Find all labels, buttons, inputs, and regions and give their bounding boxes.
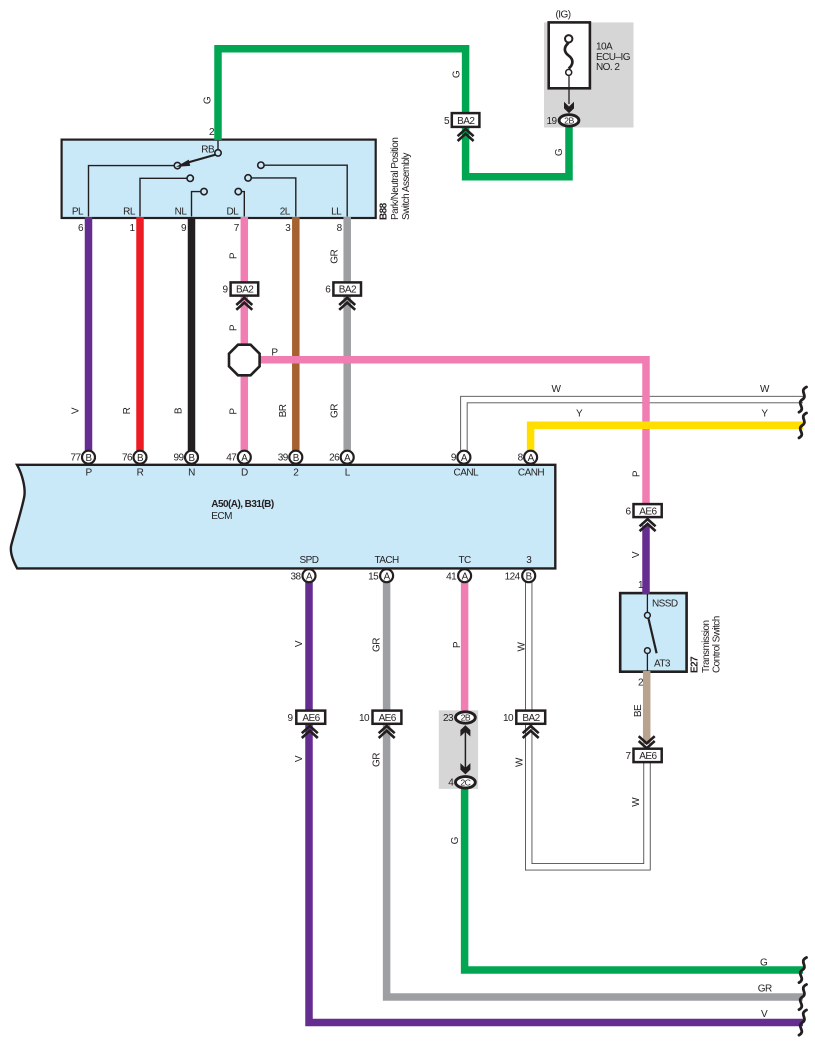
svg-text:DL: DL bbox=[226, 207, 239, 218]
RL contact wire bbox=[140, 178, 187, 216]
fuse block panel (IG) gray background bbox=[544, 22, 634, 127]
svg-text:BR: BR bbox=[278, 404, 289, 417]
svg-text:GR: GR bbox=[758, 984, 772, 995]
connector 10 BA2 bbox=[516, 711, 545, 724]
chevron arrows under 6 BA2 bbox=[339, 298, 355, 310]
svg-text:77: 77 bbox=[70, 453, 81, 464]
svg-text:V: V bbox=[294, 755, 305, 762]
connector oval 19 2B bbox=[559, 115, 579, 126]
wire V violet 6 AE6 to E27 pin1 bbox=[642, 526, 650, 595]
chevron arrows under 5 BA2 bbox=[458, 129, 474, 141]
svg-text:P: P bbox=[85, 468, 92, 479]
switch arm bbox=[187, 155, 216, 163]
svg-text:10: 10 bbox=[359, 713, 370, 724]
fuse element symbol bbox=[565, 35, 573, 75]
wire BE beige E27 pin2 to 7 AE6 bbox=[643, 671, 651, 744]
svg-text:P: P bbox=[271, 348, 278, 359]
svg-text:RL: RL bbox=[123, 207, 136, 218]
svg-text:9: 9 bbox=[287, 713, 293, 724]
svg-text:7: 7 bbox=[625, 751, 631, 762]
svg-text:A50(A), B31(B): A50(A), B31(B) bbox=[211, 499, 274, 510]
svg-text:7: 7 bbox=[234, 223, 240, 234]
svg-text:6: 6 bbox=[625, 506, 631, 517]
svg-text:Y: Y bbox=[576, 408, 583, 419]
svg-text:2B: 2B bbox=[461, 713, 471, 723]
svg-text:Switch Assembly: Switch Assembly bbox=[401, 153, 412, 220]
wire BR brown 2L pin3 to ECM pin39 bbox=[292, 217, 300, 451]
fuse output lead wire bbox=[568, 76, 570, 104]
svg-text:B: B bbox=[173, 407, 184, 414]
contact circles bbox=[174, 162, 180, 168]
svg-text:2C: 2C bbox=[460, 777, 470, 787]
connector 9 BA2 bbox=[231, 282, 259, 295]
fuse output arrowhead bbox=[564, 102, 574, 114]
svg-text:B: B bbox=[526, 571, 533, 582]
svg-text:3: 3 bbox=[285, 223, 291, 234]
break symbol squiggle V right bbox=[799, 1010, 807, 1035]
E27 internal switch bbox=[645, 594, 657, 671]
svg-text:8: 8 bbox=[518, 453, 524, 464]
svg-text:15: 15 bbox=[368, 571, 379, 582]
svg-text:2B: 2B bbox=[564, 116, 574, 126]
svg-text:P: P bbox=[229, 408, 240, 415]
svg-text:V: V bbox=[294, 640, 305, 647]
svg-text:G: G bbox=[554, 148, 565, 156]
svg-text:9: 9 bbox=[451, 453, 457, 464]
svg-text:V: V bbox=[71, 407, 82, 414]
wire B black NL pin9 to ECM pin99 bbox=[188, 217, 196, 451]
svg-text:B: B bbox=[188, 453, 195, 464]
fuse 10A ECU-IG NO.2 rectangle bbox=[549, 22, 590, 88]
svg-text:G: G bbox=[450, 836, 461, 844]
svg-text:A: A bbox=[462, 571, 469, 582]
wire Y yellow CANH to right edge bbox=[531, 425, 803, 450]
svg-text:G: G bbox=[203, 96, 214, 104]
svg-text:GR: GR bbox=[371, 638, 382, 652]
transmission control switch E27 box bbox=[620, 593, 686, 672]
wire R red RL pin1 to ECM pin76 bbox=[136, 217, 144, 451]
svg-text:AE6: AE6 bbox=[302, 713, 320, 724]
DL contact wire bbox=[242, 192, 245, 217]
svg-text:W: W bbox=[760, 384, 770, 395]
switch internal contacts B88 bbox=[89, 141, 348, 217]
svg-text:6: 6 bbox=[78, 223, 84, 234]
svg-text:124: 124 bbox=[505, 571, 521, 582]
svg-text:TACH: TACH bbox=[374, 555, 399, 566]
svg-text:A: A bbox=[384, 571, 391, 582]
double arrow between 2B and 2C bbox=[460, 725, 470, 774]
break symbol squiggle Y right bbox=[799, 413, 807, 438]
svg-text:76: 76 bbox=[122, 453, 133, 464]
svg-text:Transmission: Transmission bbox=[701, 621, 712, 674]
svg-text:W: W bbox=[515, 757, 526, 767]
break symbol squiggle W right bbox=[799, 387, 807, 412]
svg-text:Park/Neutral Position: Park/Neutral Position bbox=[390, 138, 401, 220]
wire P pink branch from junction to 6 AE6 bbox=[257, 360, 646, 505]
wire V violet SPD to bottom right edge bbox=[309, 582, 803, 1023]
svg-text:RB: RB bbox=[201, 145, 215, 156]
svg-text:19: 19 bbox=[546, 116, 557, 127]
connector 10 AE6 bbox=[373, 711, 402, 724]
wire GR gray LL pin8 to ECM pin26 bbox=[343, 217, 351, 451]
svg-text:E27: E27 bbox=[690, 656, 701, 673]
ECM top pin circles bbox=[82, 451, 537, 464]
svg-text:G: G bbox=[760, 957, 768, 968]
NL contact wire bbox=[192, 192, 201, 217]
svg-text:GR: GR bbox=[371, 753, 382, 767]
svg-text:AT3: AT3 bbox=[654, 659, 671, 670]
svg-text:B88: B88 bbox=[379, 202, 390, 220]
svg-text:P: P bbox=[632, 470, 643, 477]
svg-text:A: A bbox=[306, 571, 313, 582]
svg-text:LL: LL bbox=[331, 207, 342, 218]
connector 6 BA2 bbox=[333, 282, 361, 295]
svg-text:CANL: CANL bbox=[454, 468, 479, 479]
2L contact wire bbox=[251, 178, 295, 217]
svg-text:BA2: BA2 bbox=[339, 285, 357, 296]
svg-text:NO. 2: NO. 2 bbox=[596, 62, 620, 73]
svg-text:BA2: BA2 bbox=[236, 285, 254, 296]
svg-text:W: W bbox=[516, 641, 527, 651]
svg-text:6: 6 bbox=[325, 285, 331, 296]
svg-text:P: P bbox=[229, 324, 240, 331]
svg-text:AE6: AE6 bbox=[639, 506, 657, 517]
svg-text:R: R bbox=[122, 407, 133, 414]
wire W white 10 BA2 loop to 7 AE6 bbox=[529, 582, 647, 867]
connector oval 23 2B bbox=[456, 712, 476, 723]
svg-text:W: W bbox=[631, 797, 642, 807]
switch arm arrowhead bbox=[176, 160, 190, 167]
svg-text:26: 26 bbox=[329, 453, 340, 464]
svg-text:10A: 10A bbox=[596, 42, 613, 53]
connector 9 AE6 bbox=[296, 711, 325, 724]
junction octagon on pink wire bbox=[229, 345, 260, 376]
svg-text:Y: Y bbox=[761, 408, 768, 419]
ECM bottom pin circles bbox=[303, 569, 536, 582]
park/neutral position switch assembly B88 box bbox=[62, 140, 376, 218]
connector 5 BA2 bbox=[452, 113, 480, 127]
svg-text:N: N bbox=[188, 468, 195, 479]
svg-text:GR: GR bbox=[329, 250, 340, 264]
svg-text:CANH: CANH bbox=[518, 468, 544, 479]
TC connector gray panel bbox=[439, 710, 478, 789]
chevron arrows under 6 AE6 bbox=[640, 519, 656, 531]
chevron arrows under 10 AE6 bbox=[379, 726, 395, 738]
chevron arrows under 9 BA2 bbox=[236, 298, 252, 310]
svg-text:8: 8 bbox=[337, 223, 343, 234]
svg-text:B: B bbox=[293, 453, 300, 464]
svg-text:10: 10 bbox=[503, 713, 514, 724]
svg-text:W: W bbox=[552, 384, 562, 395]
svg-text:P: P bbox=[229, 252, 240, 259]
svg-text:PL: PL bbox=[72, 207, 84, 218]
wire G green: below 5 BA2 to 19 2B bbox=[466, 126, 569, 177]
svg-text:9: 9 bbox=[222, 285, 228, 296]
svg-text:SPD: SPD bbox=[300, 555, 319, 566]
svg-text:D: D bbox=[241, 468, 248, 479]
svg-text:Control Switch: Control Switch bbox=[712, 616, 723, 673]
svg-text:A: A bbox=[241, 453, 248, 464]
svg-text:AE6: AE6 bbox=[639, 751, 657, 762]
break symbol squiggle GR right bbox=[799, 985, 807, 1010]
svg-text:B: B bbox=[85, 453, 92, 464]
svg-text:A: A bbox=[344, 453, 351, 464]
svg-text:GR: GR bbox=[329, 404, 340, 418]
svg-text:NL: NL bbox=[175, 207, 188, 218]
ECM box A50(A), B31(B) bbox=[11, 465, 555, 569]
wire P pink TC to 23 2B bbox=[461, 582, 469, 712]
wire V violet PL pin6 to ECM pin77 bbox=[85, 217, 93, 451]
chevron arrows above 7 AE6 pointing down bbox=[639, 736, 655, 748]
svg-text:V: V bbox=[761, 1009, 768, 1020]
svg-text:1: 1 bbox=[129, 223, 135, 234]
wire W white CANL to right edge bbox=[464, 400, 803, 451]
svg-text:38: 38 bbox=[290, 571, 301, 582]
svg-text:5: 5 bbox=[444, 116, 450, 127]
svg-text:47: 47 bbox=[226, 453, 237, 464]
svg-text:23: 23 bbox=[443, 713, 454, 724]
svg-text:BA2: BA2 bbox=[522, 713, 540, 724]
svg-text:A: A bbox=[528, 453, 535, 464]
RB stub bbox=[217, 141, 219, 150]
PL contact wire bbox=[89, 166, 175, 217]
svg-text:99: 99 bbox=[173, 453, 184, 464]
svg-text:39: 39 bbox=[278, 453, 289, 464]
break symbol squiggle G right bbox=[799, 958, 807, 983]
chevron arrows under 10 BA2 bbox=[523, 726, 539, 738]
svg-text:TC: TC bbox=[458, 555, 471, 566]
svg-text:BE: BE bbox=[633, 704, 644, 717]
connector oval 4 2C bbox=[456, 777, 476, 788]
wire G green: switch pin2 to 5 BA2 bbox=[218, 49, 466, 140]
chevron arrows under 9 AE6 bbox=[302, 726, 318, 738]
svg-text:2L: 2L bbox=[280, 207, 291, 218]
wire G green 4 2C to bottom right edge bbox=[465, 786, 803, 970]
wire GR gray TACH to bottom right edge bbox=[387, 582, 803, 997]
svg-text:G: G bbox=[452, 70, 463, 78]
svg-text:ECM: ECM bbox=[211, 511, 232, 522]
svg-text:R: R bbox=[137, 468, 144, 479]
svg-text:41: 41 bbox=[446, 571, 457, 582]
wire P pink DL pin7 to ECM pin47 with junction bbox=[241, 217, 249, 451]
svg-text:AE6: AE6 bbox=[379, 713, 397, 724]
svg-text:(IG): (IG) bbox=[555, 10, 570, 21]
svg-text:BA2: BA2 bbox=[457, 116, 475, 127]
svg-text:V: V bbox=[631, 551, 642, 558]
svg-text:9: 9 bbox=[181, 223, 187, 234]
svg-text:NSSD: NSSD bbox=[652, 599, 678, 610]
connector 7 AE6 bbox=[634, 749, 662, 762]
svg-text:P: P bbox=[452, 641, 463, 648]
svg-text:A: A bbox=[461, 453, 468, 464]
svg-text:B: B bbox=[137, 453, 144, 464]
svg-text:2: 2 bbox=[209, 127, 215, 138]
LL contact wire bbox=[264, 165, 347, 216]
connector 6 AE6 bbox=[634, 504, 662, 517]
